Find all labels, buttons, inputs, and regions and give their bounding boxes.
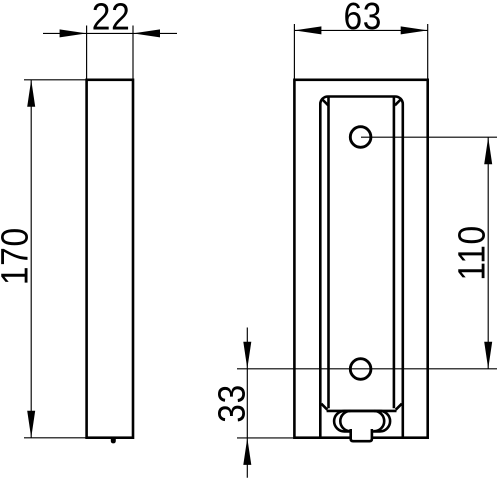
clip housing inner arc right <box>374 411 384 431</box>
svg-text:170: 170 <box>0 227 36 285</box>
svg-text:22: 22 <box>92 0 131 38</box>
svg-text:63: 63 <box>343 0 382 37</box>
dimension 110 / 33: leader line through bottom hole <box>237 368 497 370</box>
dimension 33: arrowhead lower (pointing up) <box>243 438 251 465</box>
dimension 33: arrowhead upper (pointing down) <box>243 342 251 369</box>
clip housing stadium outline <box>334 411 390 432</box>
dimension 170: dimension line <box>30 80 32 438</box>
dimension 63: dimension line <box>294 29 427 31</box>
dimension 63: extension line left <box>293 24 295 79</box>
dimension 170: arrowhead up <box>27 80 35 107</box>
dimension 33: extension line bottom <box>237 437 294 439</box>
dimension 33: dimension line <box>246 328 248 478</box>
dimension 170: extension line bottom <box>24 437 86 439</box>
dimension 22: extension line left <box>86 26 88 79</box>
body outline front view <box>294 80 427 438</box>
dimension 110: arrowhead up <box>484 137 492 164</box>
dimension 22: arrowhead right (pointing left) <box>133 29 160 37</box>
dimension 22: arrowhead left (pointing right) <box>60 29 87 37</box>
dimension 63: extension line right <box>427 24 429 79</box>
screw hole top <box>350 127 371 148</box>
dimension 22: dimension line <box>43 32 177 34</box>
clip tab foot (side view) <box>111 437 116 443</box>
dimension 63: arrowhead left <box>294 26 321 34</box>
svg-text:33: 33 <box>210 384 252 423</box>
clip tongue tab <box>351 429 372 441</box>
chamfer top-left <box>321 99 328 106</box>
dimension 170: extension line top <box>24 79 87 81</box>
clip housing inner arc left <box>340 411 350 431</box>
chamfer top-right <box>395 99 402 106</box>
front face right edge <box>393 97 396 409</box>
svg-text:110: 110 <box>451 225 493 280</box>
dimension 22: extension line right <box>132 26 134 79</box>
clip housing top edge <box>327 410 397 413</box>
chamfer bottom-right <box>396 404 402 410</box>
dimension 110: leader line from top hole <box>361 136 497 138</box>
body outline left view <box>87 80 133 438</box>
chamfer bottom-left <box>321 404 327 410</box>
dimension 110: dimension line <box>487 137 489 369</box>
screw hole bottom <box>350 359 371 380</box>
dimension 63: arrowhead right <box>401 26 428 34</box>
dimension 110: arrowhead down <box>484 342 492 369</box>
back plate outline <box>320 97 403 438</box>
dimension 170: arrowhead down <box>27 411 35 438</box>
front face left edge <box>327 97 330 409</box>
